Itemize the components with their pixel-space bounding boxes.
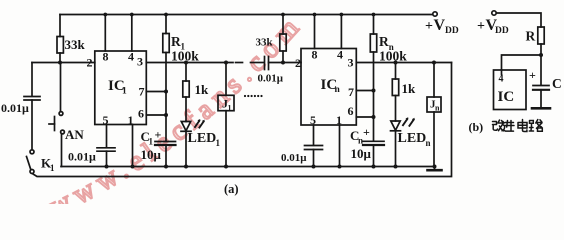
svg-text:7: 7 — [348, 85, 354, 99]
wire: IC1 pin5 stub — [106, 125, 108, 148]
capacitor C circuit b — [533, 85, 549, 87]
svg-text:1: 1 — [216, 138, 221, 148]
char jin — [502, 121, 514, 132]
svg-text:33k: 33k — [256, 37, 274, 49]
svg-text:4: 4 — [337, 48, 343, 62]
resistor 1k stage n body — [392, 79, 398, 96]
wire: ICn pin4 stub — [340, 15, 342, 49]
wire: K1 feedback return bottom — [33, 63, 452, 177]
wire: IC1 pin3 output run — [146, 62, 233, 64]
resistor 33k stage1 body — [57, 37, 63, 54]
node: gnd J1 — [224, 165, 228, 169]
node: ICn pin7 Rn — [372, 89, 376, 93]
op-amp U3: IC box circuit b — [494, 70, 527, 110]
svg-text:+: + — [425, 19, 433, 34]
resistor Rn 100k body — [370, 34, 376, 52]
wire: VDD b to R — [496, 13, 541, 27]
svg-text:V: V — [434, 17, 446, 34]
ellipsis continuation dots — [244, 95, 246, 97]
LEDn light arrows — [403, 119, 407, 125]
char dian — [518, 120, 527, 132]
resistor 1k stage1 leads — [185, 63, 187, 82]
wire: ICn pin6 stub — [356, 116, 373, 118]
svg-text:0.01μ: 0.01μ — [258, 73, 284, 85]
node: pin3 J1 — [224, 61, 228, 65]
svg-text:6: 6 — [348, 104, 354, 118]
svg-text:n: n — [435, 104, 440, 113]
LEDn diode — [391, 121, 400, 130]
resistor R circuit b body — [538, 27, 544, 44]
svg-text:+: + — [363, 125, 370, 139]
svg-text:+: + — [155, 128, 162, 142]
terminal +VDD circuit a — [433, 12, 437, 16]
capacitor 0.01u input stage1 — [31, 63, 33, 96]
capacitor 0.01u at IC1 pin5 — [97, 147, 115, 149]
svg-text:6: 6 — [138, 107, 144, 121]
op-amp U2: ICn 555 box — [301, 49, 356, 126]
node: pin2 33k AN — [58, 61, 62, 65]
char lu — [529, 120, 542, 132]
wire: IC1 pin8 stub — [104, 15, 106, 52]
terminal +VDD circuit b — [492, 11, 496, 15]
svg-text:LED: LED — [188, 131, 217, 146]
svg-text:0.01μ: 0.01μ — [281, 152, 307, 164]
ground circuit b — [532, 107, 550, 110]
capacitor 0.01u coupling (series) — [264, 57, 266, 70]
svg-text:R: R — [526, 29, 536, 44]
watermark www.elecfans.com — [45, 2, 323, 222]
capacitor 0.01u at ICn pin5 — [305, 145, 323, 147]
resistor R1 100k leads — [165, 15, 167, 34]
node: rail Rn — [372, 13, 376, 17]
wire: R1 node down to C1 — [165, 92, 167, 142]
svg-text:8: 8 — [103, 50, 109, 64]
svg-text:2: 2 — [295, 56, 301, 70]
resistor R1 100k body — [163, 34, 169, 53]
resistor 33k stage n leads — [282, 15, 284, 35]
svg-text:R: R — [171, 34, 181, 49]
wire: into coupling cap — [251, 62, 265, 64]
svg-text:8: 8 — [312, 48, 318, 62]
resistor 33k stage1 leads — [59, 15, 61, 37]
svg-text:1k: 1k — [195, 82, 210, 97]
svg-text:1: 1 — [50, 163, 55, 173]
LED1 diode — [181, 122, 190, 131]
node: pin3 1k — [184, 61, 188, 65]
svg-text:100k: 100k — [171, 49, 199, 64]
node: gnd C1 — [164, 165, 168, 169]
node: rail ICn pin4 — [340, 13, 344, 17]
svg-text:+: + — [529, 68, 536, 82]
wire: IC1 pin1 stub to ground — [132, 125, 134, 167]
svg-text:n: n — [335, 85, 341, 95]
relay J1 — [225, 63, 227, 96]
node: rail R1 — [164, 13, 168, 17]
node: gnd pin1 n — [338, 165, 342, 169]
node: b R C IC — [539, 53, 543, 57]
wire: ICn pin5 stub — [313, 125, 315, 145]
wire: node to IC pin4 — [502, 55, 542, 70]
svg-text:2: 2 — [87, 56, 93, 70]
wire: IC1 pin4 stub — [131, 15, 133, 52]
wire: dashed continuation — [236, 62, 243, 64]
wire: AN to ground rail — [61, 135, 63, 167]
capacitor C1 10u electrolytic — [155, 141, 176, 143]
svg-text:(a): (a) — [224, 182, 239, 196]
resistor 1k stage n leads — [395, 63, 397, 80]
svg-text:AN: AN — [65, 127, 84, 142]
wire: ICn pin3 output run — [356, 62, 451, 64]
ground symbol main — [434, 167, 436, 170]
node: gnd Cn — [372, 165, 376, 169]
wire: pin4 tick — [501, 70, 503, 75]
svg-text:1: 1 — [336, 113, 342, 127]
char gai — [493, 120, 504, 131]
node: gnd LED1 — [184, 165, 188, 169]
node: rail IC1 pin8 — [103, 13, 107, 17]
svg-text:100k: 100k — [379, 49, 407, 64]
svg-text:C: C — [552, 76, 562, 91]
wire: cap to ICn pin2 — [269, 62, 302, 64]
wire: IC1 pin2 horizontal — [32, 62, 95, 64]
svg-text:33k: 33k — [65, 37, 86, 52]
node: gnd 0.01u — [105, 165, 109, 169]
svg-text:LED: LED — [398, 131, 427, 146]
node: gnd LEDn — [394, 165, 398, 169]
relay Jn — [433, 63, 435, 98]
svg-text:IC: IC — [498, 89, 515, 105]
node: ICn pin3 Jn — [432, 61, 436, 65]
svg-text:7: 7 — [139, 85, 145, 99]
node: gnd Jn — [433, 165, 437, 169]
node: pin7 R1 — [164, 90, 168, 94]
node: gnd pin1 — [131, 165, 135, 169]
svg-text:1: 1 — [128, 113, 134, 127]
node: ICn pin2 33k — [281, 61, 285, 65]
wire: +VDD top rail — [60, 14, 433, 16]
svg-text:4: 4 — [128, 50, 134, 64]
svg-text:n: n — [426, 138, 431, 148]
node: rail 33k n — [281, 13, 285, 17]
label: Chinese caption 改进电路 — [493, 120, 543, 132]
svg-text:1: 1 — [122, 87, 127, 97]
pushbutton AN — [59, 112, 63, 116]
svg-text:DD: DD — [445, 26, 459, 36]
svg-text:3: 3 — [348, 56, 354, 70]
svg-text:1: 1 — [228, 104, 232, 113]
svg-text:1: 1 — [149, 137, 154, 147]
resistor 1k stage1 body — [183, 81, 189, 97]
svg-text:10μ: 10μ — [351, 146, 372, 161]
capacitor Cn 10u electrolytic — [363, 140, 384, 142]
op-amp U1: IC1 555 box — [95, 51, 147, 125]
node: rail ICn pin8 — [313, 13, 317, 17]
resistor Rn 100k leads — [373, 15, 375, 35]
svg-text:10μ: 10μ — [141, 147, 162, 162]
svg-text:DD: DD — [495, 26, 509, 36]
svg-text:+: + — [477, 19, 485, 34]
svg-text:4: 4 — [499, 74, 504, 85]
svg-text:5: 5 — [103, 113, 109, 127]
node: gnd 0.01u n — [312, 165, 316, 169]
LED1 light arrows — [195, 121, 199, 127]
node: rail IC1 pin4 — [130, 13, 134, 17]
wire: ICn pin1 stub to ground — [339, 125, 341, 167]
svg-text:3: 3 — [137, 55, 143, 69]
svg-text:0.01μ: 0.01μ — [1, 101, 29, 115]
svg-text:(b): (b) — [469, 120, 484, 134]
wire: IC1 pin7 stub — [146, 91, 166, 93]
wire: pin2 node down to AN button — [60, 63, 62, 111]
node: ICn pin3 1k — [394, 61, 398, 65]
wire: ground rail — [61, 166, 435, 168]
node: pin6 R1 — [164, 113, 168, 117]
svg-text:1k: 1k — [402, 81, 417, 96]
resistor 33k stage n body — [280, 34, 286, 51]
svg-text:0.01μ: 0.01μ — [68, 150, 96, 164]
wire: R to node — [540, 44, 542, 85]
svg-text:R: R — [379, 34, 389, 49]
wire: ICn pin7 stub — [356, 90, 373, 92]
switch K1 — [30, 150, 34, 154]
svg-text:5: 5 — [310, 113, 316, 127]
wire: IC1 pin6 stub — [146, 114, 166, 116]
wire: ICn pin8 stub — [314, 15, 316, 49]
node: ICn pin6 Rn — [372, 115, 376, 119]
